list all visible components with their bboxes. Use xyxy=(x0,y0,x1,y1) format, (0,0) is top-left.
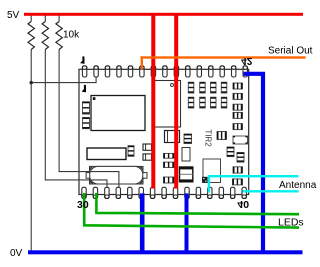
crystal Y1 xyxy=(86,166,147,184)
capacitor CG8 xyxy=(221,97,227,108)
wire blue drop from bottom pin 6 xyxy=(140,193,145,253)
capacitor CG6 xyxy=(200,97,206,108)
resistor RC2 xyxy=(233,93,243,99)
resistor RC3 xyxy=(233,104,243,110)
capacitor CG3 xyxy=(211,82,217,93)
wire green 2 from bottom pin 1 xyxy=(83,193,299,228)
pin top 4 xyxy=(117,66,121,77)
svg-text:10k: 10k xyxy=(63,30,80,41)
wire green 1 from bottom pin 2 xyxy=(95,193,299,214)
resistor R7 xyxy=(233,179,243,185)
wire red drop 1 to bottom pin 7 xyxy=(151,13,155,189)
wire cyan 1 antenna from bottom pin 12 xyxy=(208,176,299,192)
pin bottom 7 xyxy=(150,187,154,198)
svg-text:Antenna: Antenna xyxy=(279,180,317,191)
op-amp U1 main IC xyxy=(91,96,145,131)
wire R1 lead/drop to 0V xyxy=(31,16,119,251)
resistor R10 xyxy=(164,177,175,183)
svg-text:TIR2: TIR2 xyxy=(204,129,213,147)
capacitor C5 white box xyxy=(182,148,190,162)
capacitor C6 xyxy=(227,147,234,157)
pin top 8 xyxy=(163,66,167,77)
pin top 15 xyxy=(243,66,247,77)
pin top 10 xyxy=(186,66,190,77)
resistor R1 xyxy=(28,22,34,50)
wire cyan 2 antenna from bottom pin 15 xyxy=(243,190,299,192)
wire R1 branch to pin 2 xyxy=(31,77,96,82)
svg-text:30: 30 xyxy=(77,199,89,211)
pin bottom 2 xyxy=(93,187,97,198)
resistor RC1 xyxy=(233,83,243,89)
pin label 40 (flipped) xyxy=(237,198,249,210)
capacitor CG1 xyxy=(188,82,194,93)
svg-text:42: 42 xyxy=(241,55,253,66)
pin top 7 xyxy=(151,66,155,77)
pin bottom 13 xyxy=(219,187,223,198)
resistor R4 xyxy=(217,132,227,140)
op-amp U3 rectangle xyxy=(87,148,126,160)
wire R2 to bottom pin 3 xyxy=(45,16,107,188)
pin top 14 xyxy=(232,66,236,77)
pin bottom 4 xyxy=(116,187,120,198)
wire red drop 2 to bottom pin 9 xyxy=(174,13,178,189)
pin bottom 1 xyxy=(82,187,86,198)
pin bottom 3 xyxy=(105,187,109,198)
pin top 11 xyxy=(197,66,201,77)
svg-text:Serial Out: Serial Out xyxy=(268,46,313,57)
wire orange serial out xyxy=(141,56,306,58)
resistor RC4 xyxy=(233,112,243,118)
pin top 6 xyxy=(140,66,144,77)
svg-text:0V: 0V xyxy=(10,248,23,259)
pin label 42 (flipped) xyxy=(241,55,253,66)
module board outline xyxy=(79,69,249,194)
capacitor C7 xyxy=(237,153,244,163)
wire blue from pin 42 xyxy=(244,74,263,252)
pin top 9 xyxy=(174,66,178,77)
pin bottom 14 xyxy=(231,187,235,198)
wire red 5V rail xyxy=(24,13,303,16)
pin 1 marker inside board (flipped digit drawn as path) xyxy=(82,85,86,92)
pin top 12 xyxy=(209,66,213,77)
inductor L1 stacked xyxy=(180,167,193,182)
resistor R9 xyxy=(164,162,175,167)
svg-text:LEDs: LEDs xyxy=(278,217,304,229)
wire blue drop from bottom pin 10 xyxy=(185,193,189,253)
resistor R3 10k xyxy=(56,22,62,50)
capacitor C1 xyxy=(83,102,90,114)
resistor R8 xyxy=(164,153,175,158)
capacitor C3 xyxy=(177,130,180,143)
capacitor C8 xyxy=(143,144,152,150)
pin bottom 6 xyxy=(139,187,143,198)
pin bottom 10 xyxy=(185,187,189,198)
capacitor CG2 xyxy=(200,82,206,93)
pin top 1 xyxy=(82,66,86,77)
op-amp U2 shield box xyxy=(153,81,181,128)
wire blue 0V rail xyxy=(28,250,303,254)
pin top 13 xyxy=(220,66,224,77)
pin bottom 12 xyxy=(208,187,212,198)
capacitor C2 xyxy=(83,118,90,129)
transistor Q1 xyxy=(165,131,180,143)
capacitor C4 xyxy=(184,134,192,144)
wire R3 to bottom pin 4 xyxy=(59,16,119,188)
resistor R6 xyxy=(233,167,243,173)
pin top 5 xyxy=(128,66,132,77)
pin label 1 top (flipped digit drawn as path) xyxy=(80,56,84,63)
capacitor CG5 xyxy=(188,97,194,108)
pin bottom 15 xyxy=(242,187,246,198)
capacitor CG4 xyxy=(221,82,227,93)
resistor R5 white rect xyxy=(233,136,248,144)
pin bottom 9 xyxy=(173,187,177,198)
resistor RC5 xyxy=(233,124,243,130)
pin bottom 5 xyxy=(128,187,132,198)
crystal Y2 white box xyxy=(202,159,221,183)
pin bottom 8 xyxy=(162,187,166,198)
capacitor C10 xyxy=(128,146,134,157)
pin bottom 11 xyxy=(196,187,200,198)
resistor R2 xyxy=(42,22,48,50)
capacitor C9 xyxy=(143,154,152,160)
pin top 3 xyxy=(105,66,109,77)
pin top 2 xyxy=(94,66,98,77)
capacitor CG7 xyxy=(211,97,217,108)
node junction on R1 wire xyxy=(30,81,33,84)
svg-text:5V: 5V xyxy=(7,10,20,21)
svg-text:40: 40 xyxy=(237,198,249,210)
